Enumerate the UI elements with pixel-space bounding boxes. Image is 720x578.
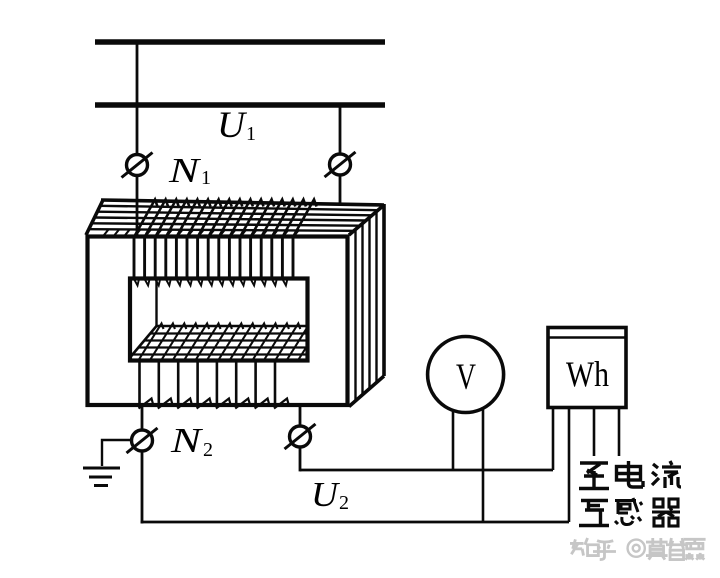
fuse FU1 (122, 153, 153, 178)
svg-text:U: U (217, 105, 247, 146)
wire Wh leg 1 (552, 408, 555, 470)
voltmeter V (428, 337, 504, 413)
ground wire (102, 440, 130, 466)
svg-text:N: N (170, 421, 203, 460)
wire left fuse to bottom rail (141, 451, 144, 524)
wire V right leg (482, 408, 485, 522)
svg-text:1: 1 (246, 123, 256, 145)
svg-text:N: N (168, 151, 201, 190)
wire Wh leg 4 (618, 408, 621, 456)
U2 rail wire (300, 469, 553, 472)
wire left primary tap (136, 42, 139, 155)
svg-text:U: U (311, 475, 341, 514)
wire secondary left tap (141, 406, 144, 430)
wire right fuse down (299, 447, 302, 471)
svg-text:2: 2 (339, 492, 349, 514)
wire V left leg (452, 411, 455, 471)
wire right primary tap (339, 105, 342, 154)
wire Wh leg 3 (593, 408, 596, 456)
watermark zhihu @huangpulin (570, 538, 706, 560)
label: to current transformer (Chinese) row 1 (579, 461, 681, 489)
wire right primary tap lower (339, 175, 342, 203)
primary winding N1 (104, 200, 317, 286)
fuse FU2 (325, 152, 356, 177)
bus bar upper (95, 39, 385, 45)
bottom rail wire (141, 521, 569, 524)
label: to current transformer (Chinese) row 2 (579, 498, 680, 526)
svg-text:Wh: Wh (566, 354, 609, 394)
secondary winding N2 (130, 324, 323, 409)
fuse FU3 (127, 428, 158, 453)
fuse FU4 (285, 424, 316, 449)
bus bar lower (95, 102, 385, 108)
transformer core (86, 200, 384, 407)
svg-text:2: 2 (203, 439, 213, 461)
svg-text:V: V (456, 357, 476, 398)
watt-hour meter Wh (548, 328, 626, 408)
wire Wh leg 2 (568, 408, 571, 522)
svg-text:1: 1 (201, 167, 211, 189)
wire secondary right tap (299, 406, 302, 426)
ground symbol (83, 468, 120, 486)
wire left primary tap lower (136, 176, 139, 238)
